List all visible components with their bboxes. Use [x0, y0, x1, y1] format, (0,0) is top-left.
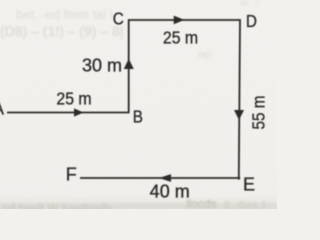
svg-text:(D8) – (1!) – (9) – 8|: (D8) – (1!) – (9) – 8|: [0, 23, 123, 39]
svg-text:A: A: [0, 99, 4, 119]
svg-text:F: F: [66, 165, 77, 185]
svg-text:no;: no;: [198, 49, 213, 61]
svg-text:40 m: 40 m: [150, 182, 190, 202]
svg-text:25 m: 25 m: [56, 89, 91, 109]
svg-text:C: C: [113, 8, 124, 28]
svg-text:55 m: 55 m: [248, 96, 268, 130]
svg-text:25 m: 25 m: [163, 28, 198, 48]
svg-text:30 m: 30 m: [82, 55, 122, 75]
svg-text:D: D: [246, 11, 257, 31]
svg-text:E: E: [243, 175, 255, 195]
svg-text:B: B: [133, 106, 143, 126]
svg-text:bet, -ed fmm tai l: bet, -ed fmm tai l: [16, 7, 113, 22]
svg-text:w. ./: w. ./: [239, 0, 261, 9]
